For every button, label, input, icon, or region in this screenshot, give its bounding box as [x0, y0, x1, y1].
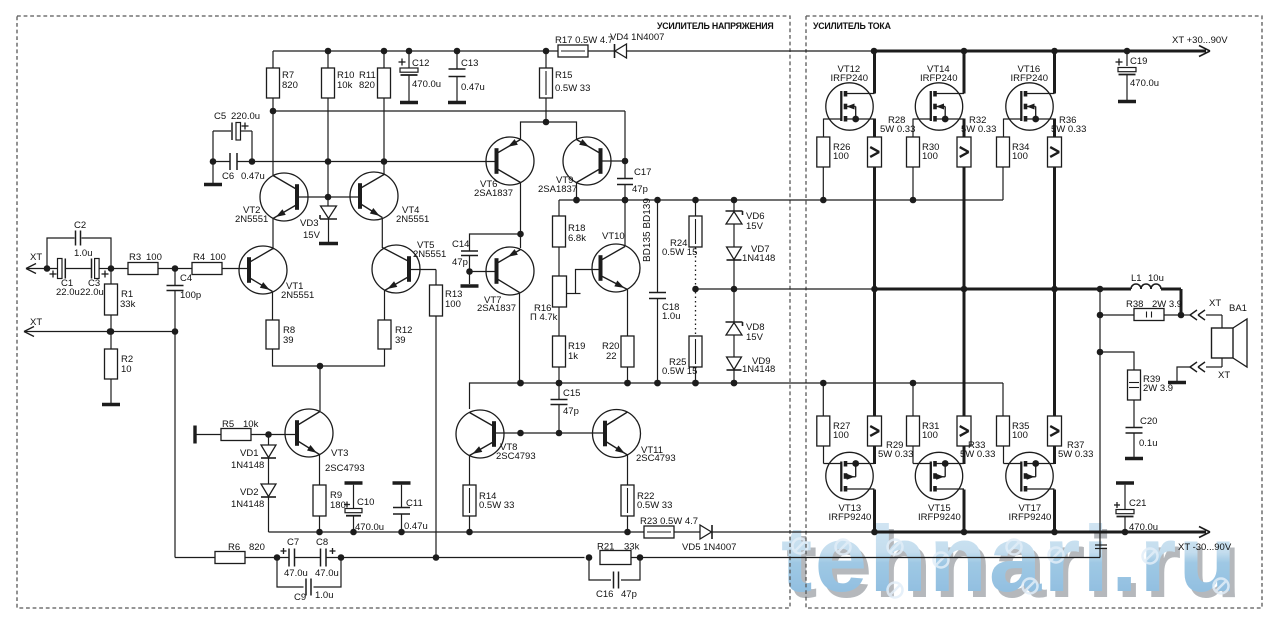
svg-text:47p: 47p [452, 257, 468, 268]
svg-text:47p: 47p [632, 184, 648, 195]
svg-text:C19: C19 [1130, 56, 1147, 67]
svg-text:2W 3.9: 2W 3.9 [1152, 299, 1182, 310]
svg-text:C11: C11 [406, 498, 423, 509]
svg-text:C5: C5 [214, 111, 226, 122]
svg-text:C4: C4 [180, 273, 192, 284]
svg-text:VD3: VD3 [300, 218, 318, 229]
svg-text:L1: L1 [1131, 273, 1142, 284]
svg-text:0.47u: 0.47u [461, 82, 485, 93]
svg-text:П 4.7k: П 4.7k [530, 312, 558, 323]
svg-text:УСИЛИТЕЛЬ ТОКА: УСИЛИТЕЛЬ ТОКА [813, 21, 892, 31]
svg-text:C20: C20 [1140, 416, 1157, 427]
svg-text:C17: C17 [634, 167, 651, 178]
svg-text:47p: 47p [563, 406, 579, 417]
svg-text:100: 100 [1012, 430, 1028, 441]
svg-text:IRFP9240: IRFP9240 [918, 512, 961, 523]
svg-text:2SA1837: 2SA1837 [477, 303, 516, 314]
svg-text:100: 100 [146, 252, 162, 263]
svg-text:5W 0.33: 5W 0.33 [961, 124, 996, 135]
svg-text:C16: C16 [596, 589, 613, 600]
svg-text:10k: 10k [243, 419, 259, 430]
svg-text:220.0u: 220.0u [231, 111, 260, 122]
svg-text:VD1: VD1 [240, 448, 258, 459]
svg-text:IRFP9240: IRFP9240 [829, 512, 872, 523]
svg-text:10k: 10k [337, 80, 353, 91]
svg-text:2SA1837: 2SA1837 [538, 184, 577, 195]
svg-text:IRFP240: IRFP240 [1011, 73, 1049, 84]
svg-text:VD4 1N4007: VD4 1N4007 [610, 32, 664, 43]
svg-text:100: 100 [1012, 151, 1028, 162]
svg-text:470.0u: 470.0u [355, 522, 384, 533]
svg-text:VD2: VD2 [240, 487, 258, 498]
svg-text:C2: C2 [74, 220, 86, 231]
svg-text:VT10: VT10 [602, 231, 625, 242]
svg-text:6.8k: 6.8k [568, 233, 586, 244]
svg-text:IRFP240: IRFP240 [920, 73, 958, 84]
svg-text:VT3: VT3 [331, 448, 348, 459]
svg-text:C21: C21 [1129, 498, 1146, 509]
svg-text:XT: XT [1218, 370, 1230, 381]
svg-text:2W 3.9: 2W 3.9 [1143, 383, 1173, 394]
svg-text:IRFP240: IRFP240 [831, 73, 869, 84]
svg-text:УСИЛИТЕЛЬ НАПРЯЖЕНИЯ: УСИЛИТЕЛЬ НАПРЯЖЕНИЯ [657, 21, 774, 31]
svg-text:1N4148: 1N4148 [231, 460, 264, 471]
svg-text:C9: C9 [294, 592, 306, 603]
svg-text:15V: 15V [746, 221, 764, 232]
svg-text:1N4148: 1N4148 [742, 253, 775, 264]
svg-text:0.47u: 0.47u [404, 521, 428, 532]
svg-text:C8: C8 [316, 537, 328, 548]
svg-text:33k: 33k [120, 299, 136, 310]
svg-text:1.0u: 1.0u [662, 311, 681, 322]
svg-text:0.5W 33: 0.5W 33 [637, 500, 672, 511]
svg-text:2N5551: 2N5551 [281, 290, 314, 301]
svg-text:2N5551: 2N5551 [235, 214, 268, 225]
svg-text:C6: C6 [222, 171, 234, 182]
svg-text:R4: R4 [193, 252, 205, 263]
svg-text:VD5 1N4007: VD5 1N4007 [682, 542, 736, 553]
svg-text:100: 100 [833, 430, 849, 441]
svg-text:C12: C12 [412, 58, 429, 69]
svg-text:R38: R38 [1126, 299, 1143, 310]
svg-text:1N4148: 1N4148 [231, 499, 264, 510]
svg-text:XT +30...90V: XT +30...90V [1172, 35, 1228, 46]
svg-text:C13: C13 [461, 58, 478, 69]
svg-text:5W 0.33: 5W 0.33 [960, 449, 995, 460]
svg-text:BD135 BD139: BD135 BD139 [642, 198, 653, 262]
svg-text:10u: 10u [1148, 273, 1164, 284]
svg-text:1k: 1k [568, 351, 578, 362]
svg-text:1.0u: 1.0u [74, 248, 93, 259]
svg-text:0.47u: 0.47u [241, 171, 265, 182]
svg-text:2N5551: 2N5551 [413, 249, 446, 260]
svg-text:0.5W 33: 0.5W 33 [479, 500, 514, 511]
svg-text:R5: R5 [222, 419, 234, 430]
svg-text:100: 100 [445, 299, 461, 310]
svg-text:2SC4793: 2SC4793 [496, 451, 536, 462]
svg-text:820: 820 [282, 80, 298, 91]
svg-text:22.0u: 22.0u [56, 287, 80, 298]
svg-text:100: 100 [833, 151, 849, 162]
svg-text:15V: 15V [303, 230, 321, 241]
svg-text:47.0u: 47.0u [284, 568, 308, 579]
svg-text:39: 39 [395, 335, 406, 346]
svg-text:2SC4793: 2SC4793 [325, 463, 365, 474]
svg-text:0.5W 15: 0.5W 15 [662, 247, 697, 258]
svg-text:XT -30...90V: XT -30...90V [1178, 542, 1232, 553]
svg-text:R17 0.5W 4.7: R17 0.5W 4.7 [555, 35, 613, 46]
svg-text:1.0u: 1.0u [315, 590, 334, 601]
svg-text:100p: 100p [180, 290, 201, 301]
svg-text:0.5W 15: 0.5W 15 [662, 366, 697, 377]
svg-text:C7: C7 [287, 537, 299, 548]
svg-text:47.0u: 47.0u [315, 568, 339, 579]
svg-text:5W 0.33: 5W 0.33 [878, 449, 913, 460]
svg-text:100: 100 [210, 252, 226, 263]
svg-text:C15: C15 [563, 388, 580, 399]
svg-text:XT: XT [1209, 298, 1221, 309]
svg-text:R6: R6 [228, 542, 240, 553]
svg-text:820: 820 [249, 542, 265, 553]
svg-text:470.0u: 470.0u [1130, 78, 1159, 89]
svg-text:XT: XT [30, 317, 42, 328]
svg-text:2N5551: 2N5551 [396, 214, 429, 225]
svg-text:100: 100 [922, 151, 938, 162]
svg-text:10: 10 [121, 364, 132, 375]
svg-text:180: 180 [330, 500, 346, 511]
svg-text:15V: 15V [746, 332, 764, 343]
svg-text:C14: C14 [452, 239, 469, 250]
svg-text:5W 0.33: 5W 0.33 [1051, 124, 1086, 135]
svg-text:1N4148: 1N4148 [742, 364, 775, 375]
svg-text:22: 22 [606, 351, 617, 362]
svg-text:2SA1837: 2SA1837 [474, 188, 513, 199]
svg-text:39: 39 [283, 335, 294, 346]
svg-text:0.1u: 0.1u [1139, 438, 1158, 449]
svg-text:R23 0.5W 4.7: R23 0.5W 4.7 [640, 516, 698, 527]
svg-text:R21: R21 [597, 542, 614, 553]
svg-text:0.5W 33: 0.5W 33 [555, 83, 590, 94]
svg-text:47p: 47p [621, 589, 637, 600]
svg-text:BA1: BA1 [1229, 303, 1247, 314]
svg-text:470.0u: 470.0u [1129, 522, 1158, 533]
svg-text:470.0u: 470.0u [412, 79, 441, 90]
svg-text:100: 100 [922, 430, 938, 441]
svg-text:C10: C10 [357, 497, 374, 508]
svg-text:22.0u: 22.0u [80, 287, 104, 298]
svg-text:820: 820 [359, 80, 375, 91]
svg-text:XT: XT [30, 252, 42, 263]
svg-text:2SC4793: 2SC4793 [636, 453, 676, 464]
svg-text:R3: R3 [129, 252, 141, 263]
svg-text:IRFP9240: IRFP9240 [1009, 512, 1052, 523]
svg-text:R15: R15 [555, 70, 572, 81]
svg-text:33k: 33k [624, 542, 640, 553]
svg-text:5W 0.33: 5W 0.33 [880, 124, 915, 135]
svg-text:5W 0.33: 5W 0.33 [1058, 449, 1093, 460]
